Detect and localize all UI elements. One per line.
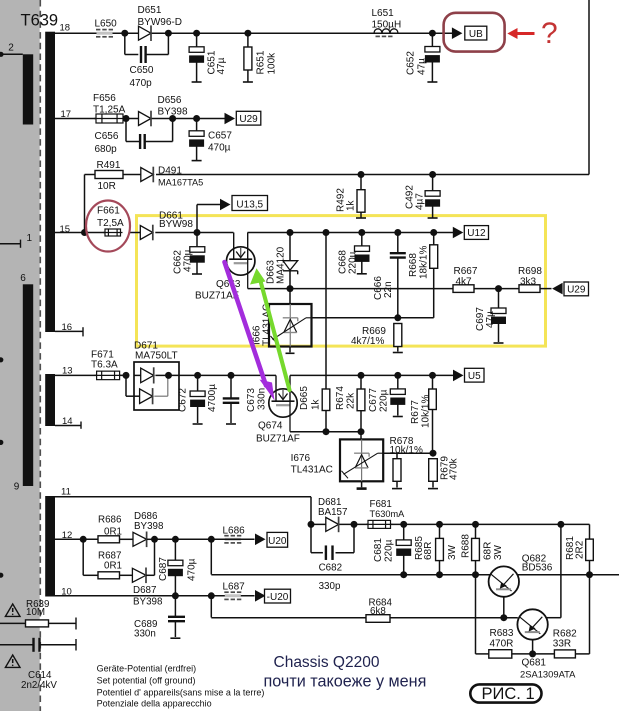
svg-text:470k: 470k <box>449 457 460 480</box>
svg-text:L687: L687 <box>223 582 246 593</box>
D671 lower diode <box>125 375 127 396</box>
capacitor C689 <box>174 596 176 616</box>
node C697 <box>474 288 519 290</box>
svg-text:D665: D665 <box>299 386 310 410</box>
node C668 <box>358 229 365 236</box>
svg-text:MA4120: MA4120 <box>276 246 287 284</box>
wire driver base row <box>211 617 518 619</box>
svg-text:9: 9 <box>14 482 20 493</box>
wire I666 to R669/R668 <box>312 317 434 319</box>
node x326 lower rail <box>323 428 330 435</box>
warning triangle R639 <box>5 604 20 616</box>
wire pin17 rail <box>55 118 226 120</box>
svg-text:Q674: Q674 <box>258 421 283 432</box>
svg-text:10k/1%: 10k/1% <box>390 445 423 456</box>
red annotation ellipse around F661 <box>86 201 130 252</box>
resistor R681 <box>589 524 591 539</box>
yellow highlight box <box>137 216 546 347</box>
node R492 <box>358 171 365 178</box>
branch U20 rail down to driver rail <box>210 539 212 574</box>
purple annotation arrow (Q663 to Q674) <box>225 262 267 386</box>
node F656/C656 <box>123 115 130 122</box>
transistor Q682 BD536 <box>489 566 519 596</box>
svg-text:C677: C677 <box>368 388 379 412</box>
Q674 source path to lower rail <box>289 401 291 432</box>
svg-text:R686: R686 <box>98 515 122 526</box>
svg-text:D687: D687 <box>133 585 156 596</box>
resistor R685 <box>439 524 441 538</box>
node after D686 <box>151 536 158 543</box>
svg-text:220µ: 220µ <box>384 539 395 562</box>
capacitor C662 <box>196 233 198 247</box>
node -U20 branch <box>208 592 215 599</box>
svg-text:4700µ: 4700µ <box>207 384 218 412</box>
vertical feed right edge <box>588 0 590 175</box>
node pin12 <box>80 536 87 543</box>
wire pin13 rail <box>55 374 126 376</box>
svg-text:18: 18 <box>60 23 71 34</box>
svg-text:Geräte-Potential (erdfrei): Geräte-Potential (erdfrei) <box>97 664 197 674</box>
wire +U rail bottom <box>311 523 590 525</box>
node Q681 emitter <box>529 650 536 657</box>
transformer winding bar (pins 11-10) <box>45 496 55 597</box>
svg-text:Chassis Q2200: Chassis Q2200 <box>274 654 380 671</box>
svg-text:D651: D651 <box>138 5 162 16</box>
svg-text:C687: C687 <box>158 557 169 581</box>
node C677 top <box>394 372 401 379</box>
wire pin15 rail <box>55 232 106 234</box>
svg-text:47µ: 47µ <box>417 58 428 75</box>
net label UB with arrow <box>452 27 463 39</box>
svg-text:10k/1%: 10k/1% <box>421 395 432 428</box>
node C657 <box>193 115 200 122</box>
svg-text:почти такоеже у меня: почти такоеже у меня <box>264 673 427 691</box>
capacitor C657 <box>196 119 198 131</box>
svg-text:U29: U29 <box>239 114 258 125</box>
svg-text:10M: 10M <box>26 607 45 618</box>
node R674 bottom / I676 top <box>358 428 365 435</box>
node C673 <box>228 372 235 379</box>
node D681 cathode <box>351 521 358 528</box>
net label U12 with arrow <box>453 227 464 239</box>
capacitor C652 <box>431 33 433 46</box>
svg-text:1k: 1k <box>311 398 322 410</box>
node C681 top <box>400 521 407 528</box>
wire R491 row <box>85 174 96 176</box>
Q681 internals <box>520 617 541 634</box>
svg-text:T6.3A: T6.3A <box>91 360 118 371</box>
capacitor C687 <box>174 539 176 560</box>
svg-text:2: 2 <box>8 43 14 54</box>
wire x561 down to Q681 collector <box>560 524 562 617</box>
svg-text:U12: U12 <box>467 228 486 239</box>
svg-text:6: 6 <box>20 273 26 284</box>
transformer winding bar (primary pin 2) <box>23 54 33 124</box>
resistor R668 <box>433 233 435 245</box>
Q663 source path to I666 <box>247 259 249 289</box>
net label U29 with arrow <box>225 113 236 125</box>
wire mid rail (Q682 base) <box>211 574 619 576</box>
wire emitter resistor row <box>475 575 477 654</box>
vertical from pin15 to R491 <box>84 175 86 233</box>
node R688 bottom / R683 feed <box>472 571 479 578</box>
svg-text:BYW98: BYW98 <box>159 219 193 230</box>
transformer winding bar (primary pins 6-9) <box>23 284 33 486</box>
capacitor C668 <box>361 233 363 246</box>
node C492 <box>429 171 436 178</box>
svg-text:R688: R688 <box>461 534 472 558</box>
svg-text:0R1: 0R1 <box>104 561 122 572</box>
svg-text:C656: C656 <box>95 131 119 142</box>
svg-text:MA167TA5: MA167TA5 <box>158 178 203 188</box>
node UB / C652 <box>429 30 436 37</box>
svg-text:4k7/1%: 4k7/1% <box>351 336 384 347</box>
node C687 top <box>172 536 179 543</box>
wire pin12 rail <box>55 538 98 540</box>
svg-text:U13,5: U13,5 <box>236 199 263 210</box>
svg-text:T639: T639 <box>21 12 59 30</box>
capacitor C672 <box>197 375 199 391</box>
node C672 <box>194 372 201 379</box>
warning triangle C614 <box>5 655 20 667</box>
branch -U20 rail down to base row <box>210 596 212 618</box>
Q681 emitter down <box>532 640 534 654</box>
diode D663 MA4120 <box>289 233 291 261</box>
svg-text:22k: 22k <box>346 392 357 409</box>
node F671/D671 <box>123 372 130 379</box>
svg-text:220µ: 220µ <box>348 251 359 274</box>
resistor R651 <box>244 30 251 37</box>
svg-text:470p: 470p <box>130 78 153 89</box>
red annotation rounded box around UB <box>444 13 505 52</box>
wire pin11 rail <box>55 496 311 498</box>
diode D687 <box>132 568 146 584</box>
wire I676 to R678/R679 <box>383 452 433 454</box>
net label U20 with arrow <box>255 534 266 546</box>
svg-text:3W: 3W <box>493 544 504 560</box>
Q682 collector down <box>503 597 505 618</box>
svg-text:100k: 100k <box>267 52 278 75</box>
svg-text:РИС. 1: РИС. 1 <box>482 685 535 703</box>
svg-text:I676: I676 <box>291 453 311 464</box>
svg-text:TL431AC: TL431AC <box>291 465 333 476</box>
net label -U20 with arrow <box>255 590 266 602</box>
node D663/I666 <box>287 285 294 292</box>
wire R682 up to rail <box>589 575 591 654</box>
capacitor C673 <box>230 375 232 398</box>
svg-text:10R: 10R <box>98 181 116 192</box>
svg-text:BY398: BY398 <box>134 521 164 532</box>
svg-text:U5: U5 <box>468 371 481 382</box>
left edge node dots <box>0 357 3 362</box>
capacitor C681 <box>403 524 405 540</box>
node A (L650/D651/C650) <box>121 30 128 37</box>
svg-text:2R2: 2R2 <box>575 540 586 559</box>
svg-text:470µ: 470µ <box>183 249 194 272</box>
node after D656 <box>169 115 176 122</box>
svg-text:L686: L686 <box>223 526 246 537</box>
node C681 bottom <box>400 571 407 578</box>
transformer winding bar (secondary pins 18-16) <box>45 32 55 332</box>
svg-text:Set potential (off ground): Set potential (off ground) <box>97 676 196 686</box>
svg-text:L651: L651 <box>372 8 395 19</box>
svg-text:R698: R698 <box>518 266 542 277</box>
node x326 on pin15 rail <box>323 229 330 236</box>
svg-text:2n2/4kV: 2n2/4kV <box>21 680 57 691</box>
wire x326 vertical to lower rail <box>325 233 327 390</box>
capacitor C614 <box>0 644 34 646</box>
svg-text:BYW96-D: BYW96-D <box>138 17 182 28</box>
svg-text:D491: D491 <box>158 166 182 177</box>
svg-text:220µ: 220µ <box>379 389 390 412</box>
resistor R674 <box>360 375 362 389</box>
svg-text:330p: 330p <box>319 581 341 592</box>
svg-text:R491: R491 <box>97 160 121 171</box>
net label U5 with arrow <box>453 370 464 382</box>
svg-text:C673: C673 <box>246 388 257 412</box>
green annotation arrow (Q674 to Q663) <box>261 281 290 390</box>
node C662 <box>194 229 201 236</box>
capacitor C677 <box>397 375 399 389</box>
I676 cathode bar <box>361 481 363 487</box>
capacitor C697 <box>498 289 500 308</box>
resistor R679 <box>429 459 438 482</box>
wire pin13 rail after Q674 <box>290 374 454 376</box>
svg-text:470µ: 470µ <box>187 558 198 581</box>
svg-text:BD536: BD536 <box>522 563 553 574</box>
svg-text:33R: 33R <box>553 638 571 649</box>
svg-text:22n: 22n <box>383 281 394 298</box>
wire pin10 rail <box>55 595 255 597</box>
svg-text:Potenziale della apparecchio: Potenziale della apparecchio <box>97 699 212 709</box>
svg-text:C650: C650 <box>130 65 154 76</box>
svg-text:?: ? <box>541 17 558 50</box>
svg-text:C672: C672 <box>178 388 189 412</box>
node R681 bottom <box>586 571 593 578</box>
I666 cathode bar <box>289 347 291 353</box>
svg-text:R667: R667 <box>454 266 478 277</box>
figure stadium RIS.1 <box>470 684 541 702</box>
svg-text:U29: U29 <box>567 285 586 296</box>
node D681 anode <box>308 521 315 528</box>
resistor R677 <box>432 375 434 389</box>
svg-text:330n: 330n <box>257 388 268 410</box>
svg-text:C652: C652 <box>406 51 417 75</box>
svg-text:U20: U20 <box>268 536 287 547</box>
node R668 <box>430 229 437 236</box>
node after D671 <box>165 372 172 379</box>
svg-text:330n: 330n <box>134 629 156 640</box>
resistor R688 <box>475 524 477 538</box>
svg-text:BUZ71AF: BUZ71AF <box>256 434 300 445</box>
svg-text:R683: R683 <box>490 628 514 639</box>
capacitor C666 <box>397 233 399 254</box>
Q682 internals <box>491 574 512 591</box>
node C687 bottom <box>172 592 179 599</box>
resistor R492 <box>360 175 362 190</box>
transformer core dashed line <box>39 0 41 711</box>
svg-text:-U20: -U20 <box>267 592 289 603</box>
svg-text:680p: 680p <box>95 144 118 155</box>
svg-text:BA157: BA157 <box>318 507 347 518</box>
resistor (D665/1k column) <box>322 389 330 411</box>
svg-text:R677: R677 <box>410 400 421 424</box>
transformer T639 core area (gray) <box>0 0 40 711</box>
svg-text:D656: D656 <box>158 95 182 106</box>
svg-text:3W: 3W <box>447 544 458 560</box>
node D663 top <box>287 229 294 236</box>
svg-text:18k/1%: 18k/1% <box>419 246 430 279</box>
svg-text:68R: 68R <box>483 542 494 560</box>
net label U13,5 with arrow <box>196 205 198 233</box>
MOSFET Q663 BUZ71AF <box>227 247 255 275</box>
node R685 bottom <box>436 571 443 578</box>
svg-text:BY398: BY398 <box>133 597 163 608</box>
svg-text:UB: UB <box>469 29 483 40</box>
svg-text:C681: C681 <box>373 538 384 562</box>
svg-text:Q681: Q681 <box>522 658 547 669</box>
capacitor C682 <box>310 524 312 552</box>
svg-text:11: 11 <box>61 486 71 497</box>
node L686 / branch <box>208 536 215 543</box>
node x561 top <box>557 521 564 528</box>
capacitor C656 <box>125 119 127 142</box>
node Q682 collector / Q681 base <box>500 614 507 621</box>
svg-text:R651: R651 <box>256 50 267 74</box>
svg-text:F656: F656 <box>93 93 116 104</box>
svg-text:470R: 470R <box>490 638 514 649</box>
node R669 <box>394 314 401 321</box>
capacitor C651 <box>193 30 200 37</box>
svg-text:T2,5A: T2,5A <box>97 218 124 229</box>
svg-text:C657: C657 <box>208 131 232 142</box>
node C666 <box>394 229 401 236</box>
node R685 top <box>436 521 443 528</box>
node R677 top <box>429 372 436 379</box>
transformer winding bar (pins 13-14) <box>45 374 55 426</box>
node pin15 <box>81 229 88 236</box>
svg-text:MA750LT: MA750LT <box>135 351 178 362</box>
svg-text:470µ: 470µ <box>208 143 231 154</box>
wire to R667 row <box>290 288 453 290</box>
node R674 top <box>358 372 365 379</box>
svg-text:C682: C682 <box>319 563 342 574</box>
node R679 top <box>430 450 437 457</box>
wire pin18 rail <box>55 32 453 34</box>
svg-text:47µ: 47µ <box>216 57 227 74</box>
svg-text:1k: 1k <box>346 199 357 211</box>
net label U29 input with arrow <box>552 283 563 295</box>
svg-text:T630mA: T630mA <box>370 509 406 519</box>
node R688 top <box>472 521 479 528</box>
red annotation arrow <box>507 28 517 39</box>
svg-text:R668: R668 <box>408 253 419 277</box>
transistor Q681 2SA1309ATA <box>517 609 547 639</box>
capacitor C650 <box>124 33 126 54</box>
svg-text:2SA1309ATA: 2SA1309ATA <box>520 669 576 680</box>
svg-text:1: 1 <box>27 233 33 244</box>
svg-text:47µ: 47µ <box>485 311 496 328</box>
svg-text:R674: R674 <box>335 386 346 410</box>
vertical pin12 to R687 <box>82 539 84 575</box>
capacitor C492 <box>432 175 434 191</box>
svg-text:F661: F661 <box>97 206 120 217</box>
node after D651 <box>165 30 172 37</box>
MOSFET Q674 BUZ71AF <box>269 389 297 417</box>
svg-text:Potentiel d' appareils(sans mi: Potentiel d' appareils(sans mise a la te… <box>97 687 265 697</box>
svg-text:4µ7: 4µ7 <box>414 193 425 210</box>
svg-text:68R: 68R <box>423 542 434 560</box>
svg-text:L650: L650 <box>95 19 118 30</box>
